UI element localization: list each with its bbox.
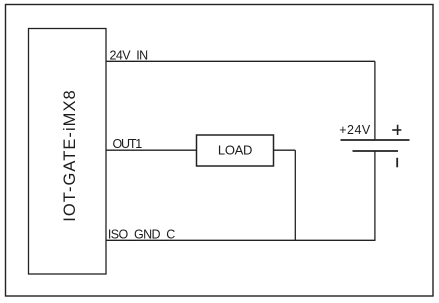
minus mark	[396, 158, 398, 168]
wire ISO_GND_C	[106, 239, 376, 241]
svg-text:ISO_GND_C: ISO_GND_C	[108, 228, 175, 242]
wire LOAD right	[274, 149, 296, 151]
wire OUT1	[106, 149, 197, 151]
battery BT1 bottom plate	[353, 150, 399, 152]
battery stem wire down	[374, 151, 376, 240]
wire LOAD drop to ground	[294, 150, 296, 240]
LOAD box	[197, 135, 274, 166]
wire 24V_IN vertical drop to battery	[374, 61, 376, 140]
plus sign	[392, 129, 401, 131]
svg-text:LOAD: LOAD	[218, 143, 252, 158]
svg-text:24V_IN: 24V_IN	[110, 49, 149, 63]
wire 24V_IN horizontal	[106, 60, 375, 62]
svg-text:OUT1: OUT1	[113, 137, 143, 151]
svg-text:IOT-GATE-iMX8: IOT-GATE-iMX8	[61, 89, 79, 222]
battery BT1 top plate	[341, 139, 410, 141]
svg-text:+24V: +24V	[339, 123, 371, 137]
IOT-GATE-iMX8 block U1	[29, 29, 107, 275]
